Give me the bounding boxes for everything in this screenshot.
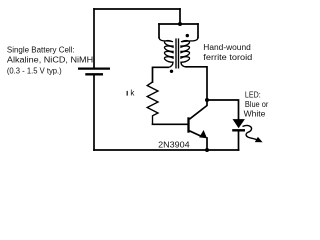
transformer T1 core line 1 (175, 38, 177, 68)
svg-text:(0.3 - 1.5 V typ.): (0.3 - 1.5 V typ.) (7, 67, 62, 76)
wire right winding stub (197, 24, 199, 38)
wire top vertical into transformer (179, 9, 181, 24)
transformer T1 core line 2 (178, 38, 180, 68)
svg-text:Blue or: Blue or (245, 100, 269, 109)
battery B1 plate long (78, 67, 110, 69)
transformer T1 right winding (181, 37, 198, 67)
LED D1 triangle (233, 119, 245, 128)
resistor R1 1k zigzag (147, 82, 158, 124)
wire base (153, 123, 188, 125)
svg-text:2N3904: 2N3904 (158, 140, 190, 149)
label resistor value 1 k (126, 91, 128, 96)
junction dot emitter bottom (205, 148, 209, 152)
junction dot collector node (205, 98, 209, 102)
svg-text:Hand-wound: Hand-wound (203, 43, 251, 52)
svg-text:White: White (244, 109, 266, 118)
transistor Q1 emitter arrowhead (199, 130, 207, 138)
wire right winding bottom to collector node (186, 67, 207, 100)
wire left rail lower (battery -) (93, 76, 95, 151)
wire left winding stub (158, 24, 160, 38)
battery B1 plate short (85, 73, 103, 75)
LED D1 light arrowhead (255, 137, 263, 142)
svg-text:ferrite toroid: ferrite toroid (203, 53, 252, 62)
wire left winding bottom to resistor (153, 67, 169, 82)
wire LED cathode down (238, 131, 240, 150)
svg-text:LED:: LED: (245, 91, 261, 100)
wire top rail (94, 8, 180, 10)
transformer phase dot left (170, 70, 173, 73)
transistor Q1 collector (189, 100, 207, 119)
LED D1 light arrow squiggle (243, 125, 258, 139)
junction dot transformer top (178, 22, 182, 26)
LED D1 cathode bar (232, 129, 245, 131)
wire collector node to LED (207, 100, 239, 120)
transformer phase dot right (186, 34, 189, 37)
wire left rail upper (battery +) (93, 9, 95, 68)
transistor Q1 base bar (187, 117, 189, 132)
wire bottom rail (94, 149, 239, 151)
transistor Q1 emitter (189, 131, 202, 137)
transformer T1 left winding (159, 37, 173, 67)
svg-text:Single Battery Cell:: Single Battery Cell: (7, 45, 75, 54)
wire transformer top bar (159, 23, 198, 25)
wire emitter down (206, 138, 208, 150)
svg-text:Alkaline, NiCD, NiMH: Alkaline, NiCD, NiMH (7, 56, 94, 65)
